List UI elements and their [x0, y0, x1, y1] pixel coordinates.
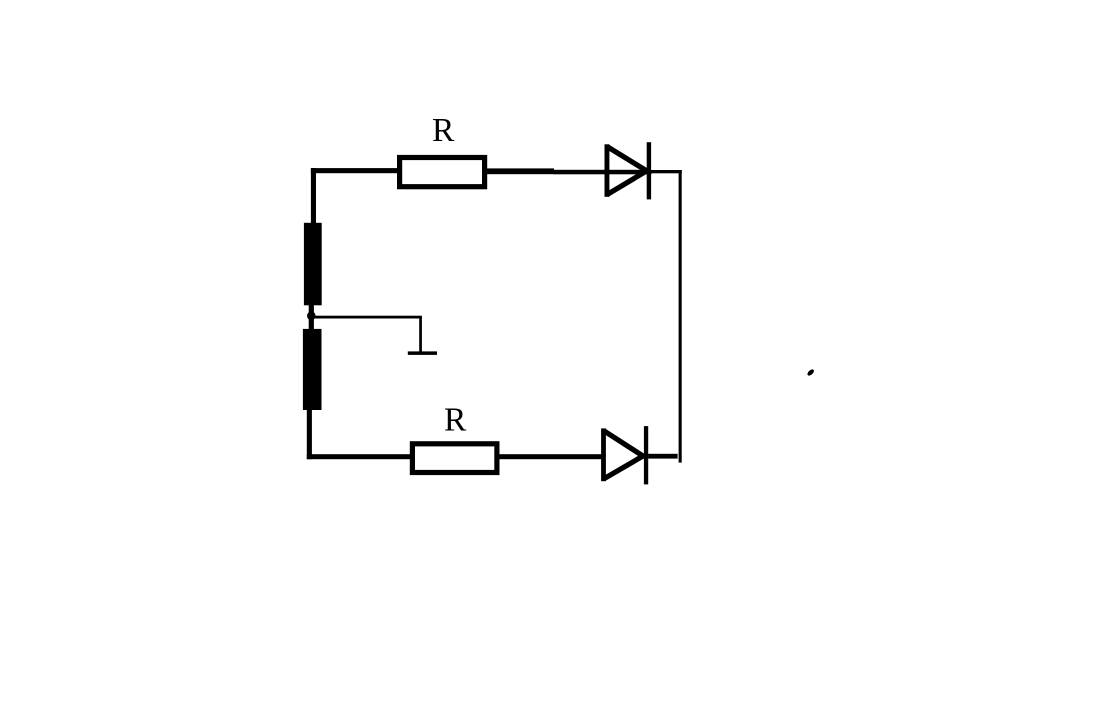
- ground bar: [408, 351, 437, 355]
- winding lower bar (transformer secondary bottom): [303, 329, 322, 410]
- svg-text:R: R: [432, 112, 455, 149]
- resistor R1: [400, 158, 485, 187]
- diode D2 cathode bar: [644, 426, 648, 484]
- junction dot (center tap): [307, 312, 316, 321]
- diode D1 anode bar: [605, 144, 610, 197]
- wire R1 to diode D1 (left segment): [487, 168, 554, 174]
- wire left vertical (lower bar to bottom corner): [307, 410, 312, 459]
- wire bottom-right (D2 cathode to corner): [648, 454, 678, 459]
- diode D2 triangle: [604, 431, 644, 479]
- wire ground branch vertical: [419, 317, 422, 353]
- wire R2 to diode D2: [499, 454, 601, 459]
- wire ground branch horizontal: [314, 316, 422, 319]
- wire bottom horizontal (corner to R2): [307, 454, 410, 459]
- diode D1 cathode bar: [647, 142, 651, 199]
- wire stub upper bar to tap: [309, 305, 314, 314]
- diode D2 anode bar: [601, 428, 606, 481]
- wire R1 to diode D1 (right segment): [554, 170, 652, 175]
- resistor R2: [412, 444, 497, 473]
- wire stub tap to lower bar: [309, 318, 314, 330]
- wire top-left vertical: [311, 168, 316, 225]
- wire right vertical: [679, 170, 682, 463]
- wire top horizontal (corner to R1): [311, 168, 398, 173]
- stray ink mark: [806, 368, 815, 376]
- diode D1 triangle: [607, 147, 647, 195]
- wire D1 cathode to top-right corner: [651, 170, 682, 173]
- svg-text:R: R: [444, 401, 467, 438]
- winding upper bar (transformer secondary top): [304, 223, 322, 305]
